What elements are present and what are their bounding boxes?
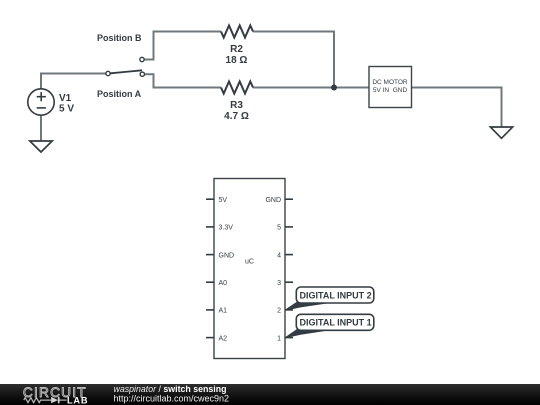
- svg-text:5V: 5V: [219, 197, 228, 204]
- ground (left): [30, 141, 52, 152]
- svg-text:LAB: LAB: [67, 396, 88, 405]
- V1 value labels: [59, 93, 74, 115]
- svg-text:R3: R3: [230, 100, 243, 111]
- svg-text:A1: A1: [219, 308, 228, 315]
- wire DC motor to right ground: [412, 88, 502, 128]
- wire R2 right to junction: [253, 32, 334, 88]
- wire switch B contact to R2: [144, 32, 221, 60]
- svg-text:R2: R2: [230, 44, 243, 55]
- svg-text:3: 3: [277, 280, 281, 287]
- svg-text:Position A: Position A: [97, 89, 142, 99]
- R3 labels: [224, 100, 249, 122]
- svg-text:2: 2: [277, 308, 281, 315]
- svg-text:uC: uC: [245, 259, 254, 266]
- svg-text:GND: GND: [265, 197, 281, 204]
- svg-text:5: 5: [277, 225, 281, 232]
- pin labels left: [219, 197, 235, 342]
- svg-text:3.3V: 3.3V: [219, 225, 234, 232]
- switch SW1 lever: [110, 70, 142, 73]
- svg-text:Position B: Position B: [97, 33, 142, 43]
- svg-text:V1: V1: [59, 93, 72, 104]
- logo diode: [51, 397, 58, 403]
- svg-text:http://circuitlab.com/cwec9n2: http://circuitlab.com/cwec9n2: [114, 393, 230, 403]
- wire V1 bottom to left ground: [40, 115, 42, 141]
- DC motor block: [369, 67, 412, 108]
- resistor R3: [221, 82, 253, 94]
- svg-text:A2: A2: [219, 335, 228, 342]
- switch contact B: [140, 57, 144, 61]
- voltage source V1: [28, 89, 54, 115]
- pin labels right: [265, 197, 281, 342]
- svg-text:GND: GND: [219, 252, 235, 259]
- pin stubs right: [285, 199, 293, 337]
- svg-text:5V IN GND: 5V IN GND: [373, 87, 408, 94]
- wire R3 right to DC motor: [253, 87, 369, 89]
- R2 labels: [226, 44, 248, 66]
- callout DIGITAL INPUT 2 box: [296, 287, 374, 303]
- callout DIGITAL INPUT 1 tail: [285, 329, 330, 338]
- switch contact A: [140, 72, 144, 76]
- pin stubs left: [206, 199, 214, 337]
- svg-text:A0: A0: [219, 280, 228, 287]
- switch common contact: [106, 71, 110, 75]
- svg-text:1: 1: [277, 335, 281, 342]
- svg-text:DIGITAL INPUT 2: DIGITAL INPUT 2: [300, 290, 372, 300]
- wire V1 top to switch common: [41, 74, 106, 89]
- svg-text:4.7 Ω: 4.7 Ω: [224, 111, 249, 122]
- microcontroller U1 body: [214, 179, 285, 359]
- svg-text:DC MOTOR: DC MOTOR: [372, 79, 408, 86]
- junction node: [331, 85, 337, 91]
- callout DIGITAL INPUT 2 tail: [285, 302, 330, 311]
- callout DIGITAL INPUT 1 box: [296, 314, 374, 330]
- resistor R2: [221, 26, 253, 38]
- ground (right): [490, 127, 512, 138]
- logo resistor zigzag: [24, 398, 51, 403]
- svg-text:5 V: 5 V: [59, 104, 74, 115]
- footer bar: [0, 384, 540, 405]
- svg-text:18 Ω: 18 Ω: [226, 55, 248, 66]
- wire switch A contact to R3: [145, 74, 221, 87]
- svg-text:4: 4: [277, 252, 281, 259]
- svg-text:DIGITAL INPUT 1: DIGITAL INPUT 1: [300, 318, 372, 328]
